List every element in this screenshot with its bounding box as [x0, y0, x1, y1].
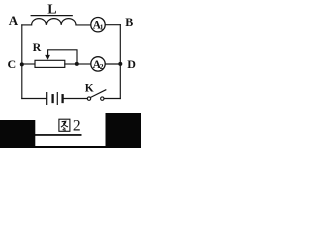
scan redaction block left — [0, 120, 35, 148]
wire: C to rheostat R — [22, 63, 35, 65]
svg-text:B: B — [125, 15, 133, 29]
caption underline — [35, 134, 82, 136]
inductor core line — [31, 15, 72, 17]
wire: junction to ammeter A2 — [77, 63, 91, 65]
wire: switch to bottom-right corner — [104, 98, 120, 100]
rheostat R body — [35, 60, 65, 67]
wire: battery to switch K — [64, 98, 88, 100]
node C label — [8, 57, 17, 71]
node D junction dot — [118, 62, 122, 66]
battery cell 1 short plate — [51, 95, 53, 102]
wire: A2 to node D — [105, 63, 120, 65]
switch K lever — [90, 90, 105, 98]
rheostat R wiper arm — [48, 50, 77, 64]
inductor L coil — [32, 19, 76, 25]
battery cell 2 long plate — [56, 93, 58, 105]
wire: rheostat to junction — [65, 63, 77, 65]
svg-text:K: K — [85, 83, 94, 95]
svg-text:D: D — [127, 57, 136, 71]
wire: bottom-left corner to battery — [22, 98, 46, 100]
svg-text:L: L — [47, 3, 56, 18]
label K — [85, 83, 94, 95]
switch K left contact — [87, 97, 90, 100]
svg-text:A: A — [9, 13, 19, 28]
svg-text:2: 2 — [73, 118, 81, 135]
label L — [47, 3, 56, 18]
node C junction dot — [20, 62, 24, 66]
ammeter A1 — [91, 18, 105, 32]
wire: right vertical from B through D to bottom-right corner — [119, 25, 121, 99]
switch K right contact — [101, 97, 104, 100]
svg-text:1: 1 — [100, 23, 104, 32]
wire: top-left corner to inductor — [22, 24, 32, 26]
scan redaction strip bottom — [0, 146, 141, 148]
wire: inductor to ammeter A1 — [76, 24, 91, 26]
caption character 图 (drawn) — [59, 119, 70, 131]
junction dot right of R — [75, 62, 79, 66]
label R — [33, 40, 42, 54]
svg-text:R: R — [33, 40, 42, 54]
node A label — [9, 13, 19, 28]
scan redaction block right — [106, 113, 142, 148]
ammeter A2 — [91, 57, 105, 71]
node D label — [127, 57, 136, 71]
battery cell 1 long plate — [46, 93, 48, 105]
wire: A1 to top-right corner at B — [105, 24, 120, 26]
wire: left vertical from top corner through C down to bottom-left corner — [21, 25, 23, 99]
svg-text:2: 2 — [100, 62, 104, 71]
battery cell 2 short plate — [61, 95, 63, 102]
node B label — [125, 15, 133, 29]
svg-text:C: C — [8, 57, 17, 71]
rheostat R wiper arrowhead — [45, 55, 50, 60]
